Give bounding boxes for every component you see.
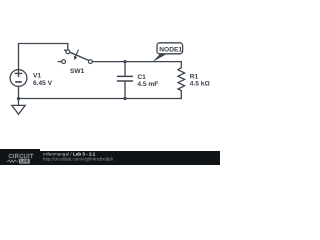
capacitor C1 [117,62,133,99]
SW1 left terminal [62,60,66,64]
SW1 top terminal [66,50,70,54]
wire: switch common to right corner [92,61,181,63]
C1 plates [117,75,133,77]
watermark bar [0,151,220,165]
watermark logo LAB box [19,159,30,164]
svg-text:C1: C1 [137,74,146,81]
switch SW1 [58,50,93,64]
wire: bottom rail [19,98,182,100]
SW1 left throw stub [58,61,62,63]
svg-text:6.45 V: 6.45 V [33,80,53,87]
wire: V1 bottom to bottom rail [18,87,20,99]
SW1 lever [64,50,89,61]
node NODE1 flag tail [153,53,168,62]
node NODE1 flag box [157,43,183,54]
ground [12,99,25,115]
C1 top stub [124,62,126,76]
svg-text:NODE1: NODE1 [159,46,182,53]
SW1 actuator arrow [76,50,79,57]
svg-text:4.5 mF: 4.5 mF [137,81,158,88]
wire: right branch top stub [180,62,182,68]
svg-text:V1: V1 [33,73,41,80]
resistor R1 zigzag [178,68,185,91]
wire: left vertical + top horizontal to switch [19,44,68,70]
junction dot V1/ground [17,97,20,100]
svg-text:LAB: LAB [20,159,28,164]
SW1 common terminal [89,60,93,64]
svg-text:R1: R1 [190,73,199,80]
svg-text:4.5 kΩ: 4.5 kΩ [190,81,211,88]
watermark logo zigzag [7,160,18,162]
svg-text:http://circuitlab.com/c/g9h4nz: http://circuitlab.com/c/g9h4nzbxt9pb [43,156,114,161]
voltage source V1 [10,70,27,87]
svg-text:SW1: SW1 [70,68,85,75]
C1 bottom stub [124,81,126,98]
junction dot cap top [123,60,126,63]
wire: right branch bottom stub [180,91,182,99]
junction dot cap bottom [123,97,126,100]
